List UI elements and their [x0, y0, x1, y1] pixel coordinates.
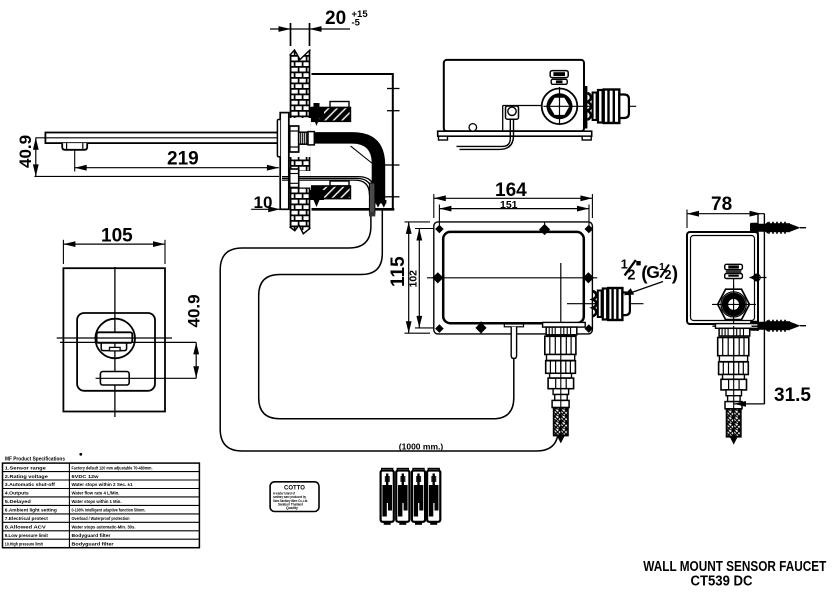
svg-text:0-100% intelligent adaptive fu: 0-100% intelligent adaptive function 50m… [72, 508, 146, 513]
left foot [439, 136, 448, 140]
svg-text:2: 2 [665, 268, 672, 282]
svg-text:102: 102 [408, 270, 420, 288]
wall hole for spout fitting [290, 118, 311, 157]
right foot [582, 136, 591, 140]
wall top break line [290, 46, 311, 60]
escutcheon plate (side view) [277, 113, 288, 210]
svg-text:Water flow rate 4 L/Min.: Water flow rate 4 L/Min. [72, 491, 120, 496]
black supply hose (curved) [314, 132, 385, 203]
LED centerline [96, 377, 197, 379]
svg-text:31.5: 31.5 [774, 385, 811, 406]
dimension 105 [63, 226, 165, 265]
svg-text:115: 115 [388, 256, 409, 287]
fitting centerline [567, 303, 644, 305]
svg-text:Factory default 120 mm adjusta: Factory default 120 mm adjustable 70-480… [72, 465, 153, 470]
plate under side box [712, 325, 758, 327]
dimension 219 (spout length) [75, 149, 279, 172]
dimension 40.9 (panel) [185, 294, 204, 378]
corner screw TR [585, 225, 594, 234]
side screw mark [749, 274, 766, 282]
sensor cable (top view) [457, 119, 514, 149]
table frame [3, 463, 200, 548]
lower hex nipple at wall [290, 169, 299, 188]
valve centerline vertical [560, 263, 562, 437]
svg-text:2.Rating voltage: 2.Rating voltage [5, 474, 49, 479]
mid screw top [539, 222, 550, 235]
spout (side view) [36, 133, 311, 150]
svg-text:Bodyguard filter: Bodyguard filter [72, 533, 111, 538]
front box inner [443, 232, 584, 323]
wall anchor screw lower [750, 320, 806, 332]
sensor seam lines [57, 337, 172, 339]
dimension 10 (escutcheon depth) [251, 193, 280, 212]
svg-text:6VDC 12w: 6VDC 12w [72, 474, 100, 479]
valve centerline (over) [560, 327, 562, 436]
battery latch (side view) [725, 264, 743, 278]
outlet fitting (front view) [593, 288, 630, 320]
mid screw right [583, 272, 594, 283]
svg-text:7.Electrical protect: 7.Electrical protect [5, 516, 48, 521]
cable gland (top view) [506, 106, 519, 119]
svg-text:105: 105 [101, 226, 133, 247]
svg-text:10.High pressure limit: 10.High pressure limit [5, 541, 43, 546]
LED window [100, 372, 129, 386]
dimension 164 [434, 180, 593, 218]
svg-text:Water stops automatic-Min. 30s: Water stops automatic-Min. 30s. [72, 525, 136, 530]
svg-text:1.Sensor range: 1.Sensor range [5, 465, 47, 470]
hose bend edge line [351, 146, 373, 164]
base flange [438, 131, 592, 136]
sensor lens tray [101, 343, 126, 350]
side valve centerline (over) [733, 326, 735, 437]
hex nut port (side view front face) [712, 285, 756, 324]
svg-text:Bodyguard filter: Bodyguard filter [72, 541, 114, 546]
small screw boss circle [469, 124, 477, 132]
dimension 102 [408, 229, 435, 328]
lower mounting bracket (hatched) [312, 181, 351, 199]
aerator [62, 143, 87, 150]
sensor window [97, 332, 133, 343]
corner screw BL [435, 324, 444, 333]
dimension 20 +15/-5 (wall thickness) [270, 8, 368, 32]
svg-text:3.Automatic shut-off: 3.Automatic shut-off [5, 482, 56, 487]
wall hole for sensor pipe [290, 171, 311, 188]
latch centerline [733, 279, 735, 289]
dimension 31.5 [734, 385, 811, 407]
mid screw bottom [475, 322, 486, 335]
wall section (brick hatched) [289, 23, 311, 240]
svg-text:78: 78 [711, 194, 732, 215]
hose coupling [308, 132, 314, 145]
lower pipe centerline extension [34, 175, 279, 177]
lower sensor pipe from escutcheon [282, 177, 375, 195]
svg-text:20: 20 [325, 8, 346, 29]
svg-text:Water stops within 1 Min.: Water stops within 1 Min. [72, 499, 122, 504]
threaded section [299, 132, 308, 144]
outlet fitting (top view) [583, 86, 629, 129]
svg-text:Quality: Quality [286, 506, 298, 510]
corner screw BR [585, 324, 594, 333]
internal partition line [503, 106, 543, 132]
svg-text:164: 164 [495, 180, 527, 201]
panel inner face [77, 313, 155, 391]
svg-text:Overload / Waterproof protecti: Overload / Waterproof protection [72, 516, 130, 521]
dimension 40.9 (spout drop) [16, 135, 39, 176]
mid screw left [432, 272, 443, 283]
panel outer plate [63, 268, 165, 411]
svg-text:4.Outputs: 4.Outputs [5, 491, 29, 496]
wall anchor screw upper [750, 222, 806, 234]
svg-text:(1000 mm.): (1000 mm.) [399, 442, 444, 452]
svg-text:MF Product Specifications: MF Product Specifications [5, 457, 65, 463]
lens inner rect [110, 347, 121, 351]
svg-text:G: G [646, 262, 660, 282]
svg-text:40.9: 40.9 [16, 135, 35, 168]
svg-text:2: 2 [627, 268, 635, 284]
svg-text:5.Delayed: 5.Delayed [5, 499, 31, 504]
spout centerline [36, 137, 311, 139]
panel vertical centerline [114, 267, 116, 417]
dimension 78 [687, 194, 764, 228]
svg-text:CT539 DC: CT539 DC [691, 574, 753, 590]
corner screw TL [435, 225, 444, 234]
sensor circle [95, 319, 135, 359]
battery cover latch (top view) [550, 71, 568, 85]
front box outer [434, 222, 593, 334]
thread size label 1/2"(G1/2) [621, 256, 679, 295]
svg-text:-5: -5 [352, 18, 361, 29]
dimension 115 [388, 222, 430, 333]
lower anchor bolt [309, 186, 324, 207]
concealed wall box (side view) [312, 74, 400, 209]
upper anchor bolt [309, 103, 324, 126]
side valve assembly [716, 324, 759, 445]
solenoid valve assembly below front box [543, 322, 586, 443]
wire hose loop outer (1000mm hose from faucet to control box inlet) [220, 213, 558, 451]
upper mounting bracket (hatched) [312, 102, 351, 122]
svg-text:Water stops within 2 Sec. ±1: Water stops within 2 Sec. ±1 [72, 482, 133, 487]
centerlines through port [543, 105, 636, 107]
wall bottom break line [289, 226, 311, 240]
box horizontal centerline [427, 277, 597, 279]
mounting plate [757, 214, 759, 332]
svg-text:9.Low pressure limit: 9.Low pressure limit [5, 533, 48, 538]
sensor connector tube below front box [504, 324, 523, 359]
svg-text:6.Ambient light setting: 6.Ambient light setting [5, 508, 57, 513]
grey sensor tube drop [369, 183, 375, 216]
wire loop inner (sensor cable from faucet to control box) [259, 210, 514, 419]
control box body (top view) [438, 60, 592, 140]
upper hex nipple at wall [290, 126, 299, 152]
svg-text:8.Allowed ACV: 8.Allowed ACV [5, 525, 47, 530]
solenoid port (top view): circle with hex socket [542, 89, 578, 125]
svg-text:219: 219 [167, 149, 199, 170]
svg-text:): ) [672, 264, 678, 285]
svg-text:10: 10 [254, 193, 273, 212]
box edge tick marks [387, 88, 400, 90]
dimension 151 [439, 199, 589, 226]
svg-text:151: 151 [500, 199, 518, 211]
svg-text:40.9: 40.9 [185, 294, 204, 327]
hose end tips [375, 200, 386, 208]
